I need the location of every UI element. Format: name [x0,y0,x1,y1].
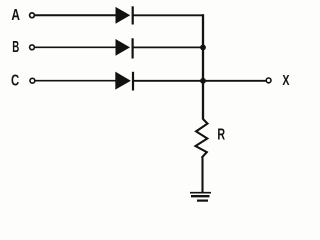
svg-text:A: A [11,7,20,24]
terminal C [30,78,35,83]
wire C input [35,80,116,82]
svg-text:B: B [12,39,19,56]
node B [12,39,19,56]
wire resistor to ground [201,158,203,194]
wire A to bus [134,14,205,16]
node C [11,73,19,90]
resistor R [196,119,226,158]
wire A input [35,14,116,16]
junction dot at C [200,78,206,84]
diode D2 [116,38,133,58]
bus vertical wire [202,14,204,119]
node A [11,7,20,24]
terminal X [266,78,271,83]
junction dot at B [200,45,206,51]
terminal B [30,45,35,50]
terminal A [30,13,35,18]
ground [190,193,211,201]
wire B to bus [134,46,204,48]
svg-text:X: X [282,73,289,89]
diode D1 [116,6,133,24]
wire C to output X [134,80,266,82]
svg-text:R: R [217,126,225,143]
diode D3 [115,72,133,91]
svg-text:C: C [11,73,19,90]
wire B input [35,46,116,48]
node X [282,73,289,89]
